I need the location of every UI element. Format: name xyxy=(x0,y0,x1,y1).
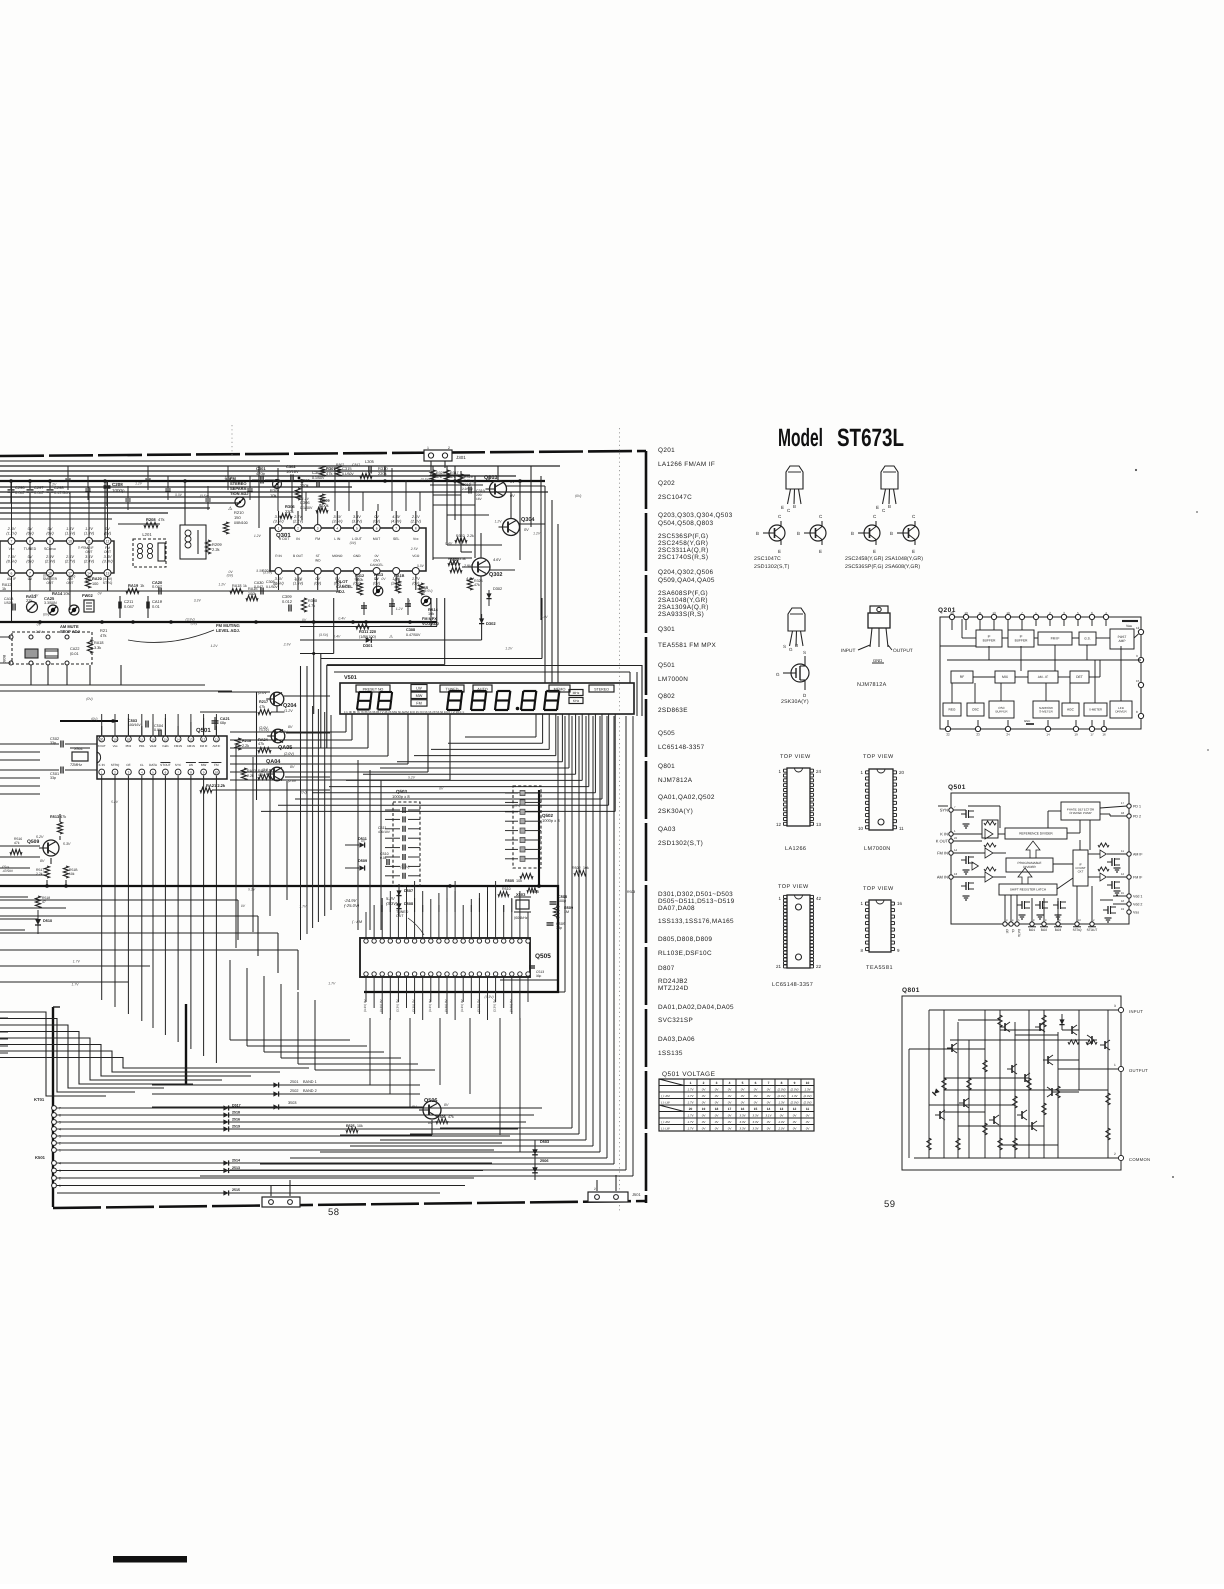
svg-text:F F 9b 8b: F F 9b 8b 7b 7b 6b 5b 9b 8b TV 4b 2b MW … xyxy=(344,710,465,714)
svg-text:16: 16 xyxy=(741,1107,745,1111)
svg-text:17: 17 xyxy=(140,737,144,741)
svg-text:0V: 0V xyxy=(98,591,103,595)
svg-text:QA03: QA03 xyxy=(658,826,676,833)
svg-text:DATA: DATA xyxy=(1017,929,1021,938)
svg-text:MEMO: MEMO xyxy=(554,687,566,691)
svg-text:2515: 2515 xyxy=(232,1188,240,1192)
svg-text:TION ADJ: TION ADJ xyxy=(230,491,249,496)
svg-text:1k: 1k xyxy=(243,584,247,588)
svg-text:0.047: 0.047 xyxy=(254,585,263,589)
svg-text:(0V): (0V) xyxy=(86,697,92,701)
svg-text:(3.5V): (3.5V) xyxy=(263,571,272,575)
svg-text:S-METER: S-METER xyxy=(1089,708,1102,712)
svg-text:DRIVER: DRIVER xyxy=(1115,709,1127,713)
svg-text:2SD1302(S,T): 2SD1302(S,T) xyxy=(754,564,790,570)
svg-text:INPUT: INPUT xyxy=(841,648,855,654)
svg-text:6: 6 xyxy=(376,527,378,531)
svg-text:R525: R525 xyxy=(346,1124,355,1128)
svg-text:1.2V: 1.2V xyxy=(342,584,350,588)
svg-text:B: B xyxy=(890,531,893,536)
svg-text:(0V): (0V) xyxy=(191,622,197,626)
svg-text:(8.5V): (8.5V) xyxy=(6,560,17,564)
svg-text:10/16V: 10/16V xyxy=(286,469,299,474)
svg-text:FM IF: FM IF xyxy=(200,744,208,748)
svg-text:10: 10 xyxy=(68,540,72,544)
svg-text:CL: CL xyxy=(140,763,144,767)
svg-text:3.3V: 3.3V xyxy=(224,476,232,480)
svg-text:72MHz: 72MHz xyxy=(70,763,82,767)
svg-text:G: G xyxy=(789,647,793,652)
svg-text:0.1/50V: 0.1/50V xyxy=(342,472,354,476)
svg-text:(0V): (0V) xyxy=(350,541,356,545)
svg-text:⚠: ⚠ xyxy=(228,506,233,512)
svg-text:0.4V: 0.4V xyxy=(31,593,39,597)
svg-text:MHz: MHz xyxy=(573,691,580,695)
svg-text:2514: 2514 xyxy=(232,1159,240,1163)
svg-text:47k: 47k xyxy=(60,815,66,819)
svg-text:2SC3311A(Q,R): 2SC3311A(Q,R) xyxy=(658,547,709,554)
svg-text:(3.5V): (3.5V) xyxy=(185,618,194,622)
svg-text:0.4V: 0.4V xyxy=(338,617,346,621)
svg-text:13: 13 xyxy=(189,737,193,741)
svg-text:R311 220: R311 220 xyxy=(359,629,377,634)
svg-text:3.3V: 3.3V xyxy=(175,493,183,497)
svg-text:LW: LW xyxy=(189,763,193,767)
svg-text:Vdd 2: Vdd 2 xyxy=(1133,903,1142,907)
svg-text:0.1/50V: 0.1/50V xyxy=(312,476,325,480)
svg-text:E: E xyxy=(781,505,784,510)
svg-text:MIX: MIX xyxy=(1002,675,1009,679)
svg-text:470/10V: 470/10V xyxy=(378,830,391,834)
svg-text:KT01: KT01 xyxy=(34,1097,45,1102)
svg-text:0V: 0V xyxy=(288,725,293,729)
svg-text:2518: 2518 xyxy=(232,1111,240,1115)
svg-text:Model: Model xyxy=(778,424,823,452)
svg-text:( ): AM: ( ): AM xyxy=(661,1094,670,1098)
svg-text:13: 13 xyxy=(780,1107,784,1111)
svg-text:22k: 22k xyxy=(26,598,32,603)
svg-text:Q509,QA04,QA05: Q509,QA04,QA05 xyxy=(658,577,715,584)
svg-text:QA04: QA04 xyxy=(266,759,281,765)
svg-text:14: 14 xyxy=(87,572,91,576)
svg-text:Vcc: Vcc xyxy=(413,537,419,541)
svg-text:2: 2 xyxy=(703,1081,705,1085)
svg-text:2SK30A(Y): 2SK30A(Y) xyxy=(658,808,693,815)
svg-text:( ): LW: ( ): LW xyxy=(661,1101,670,1105)
svg-text:47k: 47k xyxy=(158,517,164,522)
svg-text:6: 6 xyxy=(755,1081,757,1085)
svg-text:1000p: 1000p xyxy=(112,488,125,493)
svg-text:BAND 2: BAND 2 xyxy=(303,1089,317,1093)
svg-text:Q201: Q201 xyxy=(658,447,675,454)
svg-text:C317: C317 xyxy=(352,463,360,467)
svg-text:AM IF: AM IF xyxy=(213,744,221,748)
svg-text:PRESET NO: PRESET NO xyxy=(363,687,384,691)
svg-text:( : AM: ( : AM xyxy=(352,920,363,924)
svg-text:LC65148-3357: LC65148-3357 xyxy=(658,744,705,751)
svg-text:C310: C310 xyxy=(391,599,395,607)
svg-text:0V: 0V xyxy=(444,1103,449,1107)
svg-text:(3.3V) 0V: (3.3V) 0V xyxy=(395,999,399,1012)
svg-text:47: 47 xyxy=(42,900,46,904)
svg-text:STRQ: STRQ xyxy=(111,763,120,767)
svg-text:10: 10 xyxy=(215,770,219,774)
svg-text:R217: R217 xyxy=(259,700,268,704)
svg-text:1.7V: 1.7V xyxy=(299,905,307,909)
svg-text:10k: 10k xyxy=(357,1124,363,1128)
svg-text:(3.3V): (3.3V) xyxy=(102,560,113,564)
svg-text:X503: X503 xyxy=(516,892,526,897)
svg-text:REFERENCE DIVIDER: REFERENCE DIVIDER xyxy=(1019,832,1053,836)
svg-text:58: 58 xyxy=(328,1207,340,1218)
svg-text:BO2: BO2 xyxy=(1041,928,1048,932)
svg-text:2.5V: 2.5V xyxy=(410,547,419,551)
svg-text:1.2V: 1.2V xyxy=(495,520,503,524)
svg-text:0V: 0V xyxy=(381,577,386,581)
svg-text:15: 15 xyxy=(754,1107,758,1111)
svg-text:Vdd2: Vdd2 xyxy=(150,744,157,748)
svg-text:MW: MW xyxy=(201,763,207,767)
svg-text:0.01: 0.01 xyxy=(154,728,161,732)
svg-text:1SS133,1SS176,MA165: 1SS133,1SS176,MA165 xyxy=(658,918,734,925)
svg-text:24: 24 xyxy=(1006,733,1010,737)
svg-text:2502: 2502 xyxy=(290,1089,298,1093)
svg-text:15: 15 xyxy=(1121,891,1125,895)
svg-text:XOUT: XOUT xyxy=(98,744,106,748)
svg-text:0.4V: 0.4V xyxy=(78,545,86,549)
svg-text:D807: D807 xyxy=(658,965,675,972)
svg-text:2SA1048(Y,GR): 2SA1048(Y,GR) xyxy=(658,597,708,604)
svg-text:FM IF: FM IF xyxy=(1051,637,1060,641)
svg-text:K IN: K IN xyxy=(940,832,948,837)
svg-text:D503: D503 xyxy=(540,1140,549,1144)
svg-text:1.2V: 1.2V xyxy=(505,646,513,650)
svg-text:STEREO: STEREO xyxy=(594,687,609,691)
svg-text:COMMON: COMMON xyxy=(1129,1157,1150,1162)
svg-text:1M: 1M xyxy=(564,910,569,914)
svg-text:0.47/50N: 0.47/50N xyxy=(54,490,70,495)
svg-text:12: 12 xyxy=(1136,626,1140,630)
svg-text:D805,D808,D809: D805,D808,D809 xyxy=(658,936,712,943)
svg-text:D302: D302 xyxy=(493,587,502,591)
svg-text:CL: CL xyxy=(1011,929,1015,933)
svg-text:3: 3 xyxy=(59,1135,61,1139)
svg-text:B: B xyxy=(797,531,800,536)
svg-text:1/50V: 1/50V xyxy=(4,601,14,605)
svg-text:2513: 2513 xyxy=(232,1166,240,1170)
svg-text:(2.0V): (2.0V) xyxy=(791,1088,799,1092)
svg-text:2SA1309A(Q,R): 2SA1309A(Q,R) xyxy=(658,604,709,611)
svg-text:CKT: CKT xyxy=(1078,870,1084,874)
svg-text:D301,D302,D501~D503: D301,D302,D501~D503 xyxy=(658,891,733,898)
svg-text:3.3V: 3.3V xyxy=(194,598,202,602)
svg-text:4: 4 xyxy=(336,527,338,531)
svg-text:FM MPX: FM MPX xyxy=(422,617,437,621)
svg-text:Vdd1: Vdd1 xyxy=(162,744,169,748)
svg-text:(3.3V) 0V: (3.3V) 0V xyxy=(444,999,448,1012)
svg-text:LW: LW xyxy=(416,686,422,690)
svg-text:22: 22 xyxy=(946,733,950,737)
svg-text:OSC: OSC xyxy=(972,708,980,712)
svg-text:20: 20 xyxy=(899,770,905,775)
svg-text:10: 10 xyxy=(858,826,864,831)
svg-text:(3.3V) 0V: (3.3V) 0V xyxy=(428,999,432,1012)
svg-text:G.S.: G.S. xyxy=(1084,637,1090,641)
svg-text:100k: 100k xyxy=(355,578,363,582)
svg-text:B: B xyxy=(888,504,891,509)
svg-text:(3.3V) 0V: (3.3V) 0V xyxy=(476,999,480,1012)
svg-text:2SC1047C: 2SC1047C xyxy=(658,494,692,501)
svg-text:(0V): (0V) xyxy=(43,613,49,617)
svg-text:R307: R307 xyxy=(336,463,344,467)
svg-text:OUT: OUT xyxy=(85,550,92,554)
svg-text:FM IF: FM IF xyxy=(1133,876,1143,880)
svg-text:2SC2458(Y,GR) 2SA1048(Y,GR): 2SC2458(Y,GR) 2SA1048(Y,GR) xyxy=(845,556,923,562)
svg-text:BUFFER: BUFFER xyxy=(1015,639,1028,643)
svg-text:NJM7812A: NJM7812A xyxy=(857,682,887,688)
svg-text:16: 16 xyxy=(151,737,155,741)
svg-text:BO1: BO1 xyxy=(1029,928,1036,932)
svg-text:2SC1740S(R,S): 2SC1740S(R,S) xyxy=(658,554,708,561)
svg-text:5.2V: 5.2V xyxy=(408,775,416,779)
svg-text:(0V): (0V) xyxy=(514,804,520,808)
svg-text:(0V): (0V) xyxy=(373,558,379,562)
svg-text:Q504,Q508,Q803: Q504,Q508,Q803 xyxy=(658,520,713,527)
svg-text:42: 42 xyxy=(816,896,822,901)
svg-text:9: 9 xyxy=(794,1081,796,1085)
svg-text:PD2: PD2 xyxy=(126,744,132,748)
svg-text:5.2V: 5.2V xyxy=(36,835,44,839)
svg-text:RA19: RA19 xyxy=(128,583,139,588)
svg-text:8: 8 xyxy=(415,527,417,531)
svg-text:19: 19 xyxy=(702,1107,706,1111)
svg-text:R510: R510 xyxy=(502,887,511,891)
svg-text:PD1: PD1 xyxy=(139,744,145,748)
svg-text:0V: 0V xyxy=(302,618,307,622)
svg-text:GND: GND xyxy=(353,554,361,558)
svg-text:2.2k: 2.2k xyxy=(242,744,249,748)
svg-text:2: 2 xyxy=(594,1187,596,1191)
svg-text:1.7V: 1.7V xyxy=(72,982,80,986)
svg-text:C308: C308 xyxy=(406,628,415,632)
svg-text:4.6V: 4.6V xyxy=(493,558,501,562)
svg-text:23: 23 xyxy=(976,733,980,737)
svg-text:FM: FM xyxy=(416,702,421,706)
svg-text:(0V): (0V) xyxy=(69,575,75,579)
svg-text:3.5V: 3.5V xyxy=(85,555,93,559)
svg-text:0V: 0V xyxy=(510,480,515,484)
svg-text:5: 5 xyxy=(59,1121,61,1125)
svg-text:0.4V: 0.4V xyxy=(541,615,549,619)
svg-text:20: 20 xyxy=(950,611,954,615)
svg-text:DA07,DA08: DA07,DA08 xyxy=(658,905,695,912)
svg-text:1.2V: 1.2V xyxy=(396,607,404,611)
svg-text:1.2V: 1.2V xyxy=(210,644,218,648)
svg-text:6: 6 xyxy=(11,572,13,576)
svg-text:3.3V: 3.3V xyxy=(417,564,425,568)
svg-text:13: 13 xyxy=(106,572,110,576)
svg-text:1: 1 xyxy=(427,446,429,450)
svg-text:1000p x 8: 1000p x 8 xyxy=(392,794,410,799)
svg-text:Q203,Q303,Q304,Q503: Q203,Q303,Q304,Q503 xyxy=(658,512,733,519)
svg-text:0.01: 0.01 xyxy=(152,604,161,609)
svg-text:K IN: K IN xyxy=(99,763,105,767)
svg-text:BO3: BO3 xyxy=(1055,928,1062,932)
svg-text:MW: MW xyxy=(416,694,423,698)
svg-text:3.3k: 3.3k xyxy=(94,646,101,650)
svg-text:AM IF: AM IF xyxy=(1133,853,1143,857)
svg-text:LA1266: LA1266 xyxy=(785,846,806,852)
svg-text:17: 17 xyxy=(1090,733,1094,737)
svg-text:1.2V: 1.2V xyxy=(218,582,226,586)
svg-text:K501: K501 xyxy=(35,1155,46,1160)
svg-text:59: 59 xyxy=(884,1199,896,1210)
svg-text:(3.3V) 0V: (3.3V) 0V xyxy=(509,999,513,1012)
svg-text:12: 12 xyxy=(106,540,110,544)
svg-text:47k: 47k xyxy=(436,475,442,479)
svg-text:L201: L201 xyxy=(142,532,152,537)
svg-text:12: 12 xyxy=(793,1107,797,1111)
svg-text:1: 1 xyxy=(690,1081,692,1085)
svg-text:BUFFER: BUFFER xyxy=(983,639,996,643)
svg-text:D508: D508 xyxy=(404,902,413,906)
svg-text:3.3/50N: 3.3/50N xyxy=(44,601,57,605)
svg-text:E: E xyxy=(819,549,822,554)
svg-text:13: 13 xyxy=(954,872,958,876)
svg-text:47k: 47k xyxy=(14,841,20,845)
svg-text:GND: GND xyxy=(873,658,882,663)
svg-text:RA20: RA20 xyxy=(92,577,102,581)
svg-text:R218: R218 xyxy=(242,739,251,743)
svg-text:( ): AM: ( ): AM xyxy=(661,1120,670,1124)
svg-text:R502: R502 xyxy=(572,866,581,870)
svg-text:2506: 2506 xyxy=(540,1159,548,1163)
svg-text:(1.2V: (1.2V xyxy=(284,709,293,713)
svg-text:R208: R208 xyxy=(146,517,156,522)
svg-text:15: 15 xyxy=(1136,679,1140,683)
svg-text:19: 19 xyxy=(1121,907,1125,911)
svg-text:Q801: Q801 xyxy=(902,987,920,994)
svg-text:2: 2 xyxy=(59,1142,61,1146)
svg-text:FM: FM xyxy=(214,763,219,767)
svg-text:6: 6 xyxy=(59,1114,61,1118)
svg-text:ST673L: ST673L xyxy=(837,424,904,452)
svg-text:5: 5 xyxy=(356,527,358,531)
svg-text:0V: 0V xyxy=(37,623,42,627)
svg-text:21: 21 xyxy=(776,964,782,969)
svg-text:RF: RF xyxy=(960,675,965,679)
svg-text:2.5V: 2.5V xyxy=(35,630,44,634)
svg-text:33p: 33p xyxy=(556,926,562,930)
svg-text:1.2V: 1.2V xyxy=(302,497,310,501)
svg-text:47k: 47k xyxy=(448,1115,454,1119)
svg-text:47k: 47k xyxy=(450,475,456,479)
svg-text:GND: GND xyxy=(1024,719,1030,723)
svg-text:0.47/50V: 0.47/50V xyxy=(406,633,421,637)
svg-text:TOP VIEW: TOP VIEW xyxy=(780,754,811,760)
svg-text:1.2V: 1.2V xyxy=(533,532,541,536)
svg-text:DA01,DA02,DA04,DA05: DA01,DA02,DA04,DA05 xyxy=(658,1004,734,1011)
svg-text:OUTPUT: OUTPUT xyxy=(893,648,913,654)
svg-text:2.5V: 2.5V xyxy=(294,578,303,582)
svg-text:8: 8 xyxy=(781,1081,783,1085)
svg-text:OUTPUT: OUTPUT xyxy=(1129,1068,1148,1073)
svg-text:V501: V501 xyxy=(344,675,357,681)
svg-text:(2.0V): (2.0V) xyxy=(804,1094,812,1098)
svg-text:(0V): (0V) xyxy=(575,494,581,498)
svg-text:DET: DET xyxy=(1076,675,1083,679)
svg-text:Vss: Vss xyxy=(113,744,118,748)
svg-text:(3.5V): (3.5V) xyxy=(319,633,328,637)
svg-text:1.2V: 1.2V xyxy=(254,534,262,538)
svg-text:Q505: Q505 xyxy=(535,953,551,960)
svg-text:(3.3V) 0V: (3.3V) 0V xyxy=(460,999,464,1012)
svg-text:STOUT: STOUT xyxy=(160,763,171,767)
svg-text:(3.3V) 0V: (3.3V) 0V xyxy=(493,999,497,1012)
svg-text:FM: FM xyxy=(315,537,320,541)
svg-text:R506: R506 xyxy=(437,1115,446,1119)
svg-text:(2.0V): (2.0V) xyxy=(804,1101,812,1105)
svg-text:BUFFER: BUFFER xyxy=(996,709,1009,713)
svg-text:8: 8 xyxy=(29,540,31,544)
svg-text:470p: 470p xyxy=(256,471,266,476)
svg-text:(0V): (0V) xyxy=(227,574,233,578)
svg-text:1.7V: 1.7V xyxy=(280,730,288,734)
svg-text:100: 100 xyxy=(92,582,98,586)
svg-text:3: 3 xyxy=(317,527,319,531)
svg-text:QA01,QA02,Q502: QA01,QA02,Q502 xyxy=(658,794,715,801)
svg-text:KHz: KHz xyxy=(573,699,580,703)
svg-text:R308: R308 xyxy=(308,599,317,603)
svg-text:RA18: RA18 xyxy=(232,584,242,588)
svg-text:5: 5 xyxy=(742,1081,744,1085)
svg-text:1000p x 8: 1000p x 8 xyxy=(542,818,560,823)
svg-text:AM - IF: AM - IF xyxy=(1038,675,1048,679)
svg-text:2516: 2516 xyxy=(232,1118,240,1122)
svg-text:Q509: Q509 xyxy=(27,839,39,845)
svg-text:QA05: QA05 xyxy=(278,745,292,751)
svg-text:0.047: 0.047 xyxy=(34,490,45,495)
svg-text:10k: 10k xyxy=(583,866,589,870)
svg-text:47k: 47k xyxy=(259,705,265,709)
svg-text:(2.0V: (2.0V xyxy=(288,779,297,783)
svg-text:1SS135: 1SS135 xyxy=(658,1050,683,1057)
svg-text:10k: 10k xyxy=(516,879,522,883)
svg-text:1k: 1k xyxy=(2,587,6,591)
svg-text:16V: 16V xyxy=(476,497,483,501)
svg-text:Q204,Q302,Q506: Q204,Q302,Q506 xyxy=(658,569,713,576)
svg-text:3.4V: 3.4V xyxy=(104,555,112,559)
svg-text:CE: CE xyxy=(1005,929,1009,933)
svg-text:SYC: SYC xyxy=(175,763,182,767)
svg-text:19: 19 xyxy=(1074,733,1078,737)
svg-text:1: 1 xyxy=(59,1149,61,1153)
svg-text:2.2k: 2.2k xyxy=(36,872,43,876)
svg-text:CHARGE PUMP: CHARGE PUMP xyxy=(1069,811,1091,815)
svg-text:2.5V: 2.5V xyxy=(65,555,74,559)
svg-text:G: G xyxy=(776,672,780,677)
svg-text:2.5V: 2.5V xyxy=(469,481,478,485)
svg-text:L305: L305 xyxy=(365,459,375,464)
svg-text:0.047: 0.047 xyxy=(124,604,135,609)
svg-text:7.5V: 7.5V xyxy=(8,555,16,559)
svg-text:TEA5581: TEA5581 xyxy=(866,965,893,971)
svg-text:D509: D509 xyxy=(358,859,367,863)
svg-text:(3.3V) 0V: (3.3V) 0V xyxy=(412,999,416,1012)
svg-text:C312: C312 xyxy=(407,599,411,607)
svg-text:J301: J301 xyxy=(456,455,466,460)
svg-text:(2.4V): (2.4V) xyxy=(84,560,95,564)
